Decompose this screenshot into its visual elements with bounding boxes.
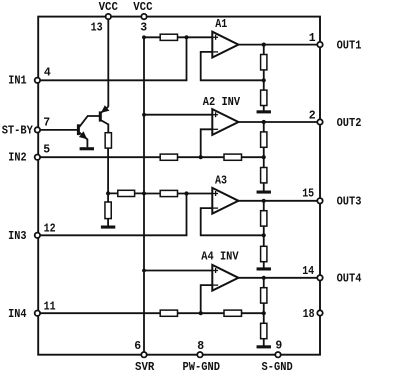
wire A4 divider upper stub bbox=[263, 278, 265, 288]
op-amp A4 bbox=[212, 265, 238, 291]
wire A1 divider mid stub bbox=[263, 70, 265, 80]
node A1 divider tap bbox=[262, 78, 266, 82]
wire IN2 input line bbox=[37, 156, 263, 158]
IC package boundary box bbox=[38, 17, 320, 355]
transistor Q1 collector bbox=[79, 116, 99, 127]
svg-text:IN3: IN3 bbox=[8, 230, 26, 243]
label S-GND bbox=[262, 361, 293, 374]
svg-text:ST-BY: ST-BY bbox=[2, 124, 33, 137]
ground standby bbox=[101, 226, 115, 229]
resistor A1 divider lower bbox=[261, 90, 267, 105]
pin 3 VCC bbox=[141, 14, 146, 19]
node A3 divider tap bbox=[262, 233, 266, 237]
wire bias feed A1 +input bbox=[144, 36, 214, 38]
wire A3 divider lower stub bbox=[263, 235, 265, 246]
op-amp A2 bbox=[212, 109, 238, 135]
svg-text:1: 1 bbox=[309, 32, 316, 45]
node SVR corner bbox=[142, 36, 146, 40]
label VCC pin13 bbox=[99, 1, 118, 14]
label OUT1 bbox=[337, 39, 362, 52]
svg-text:A1: A1 bbox=[215, 18, 227, 31]
svg-text:IN1: IN1 bbox=[8, 74, 26, 87]
svg-text:5: 5 bbox=[43, 144, 50, 157]
resistor A1 divider upper bbox=[261, 55, 267, 70]
label OUT2 bbox=[337, 117, 362, 130]
label op-amp A3 bbox=[215, 175, 227, 188]
wire IN4 input line bbox=[37, 312, 263, 314]
transistor Q2 emitter bbox=[101, 107, 108, 113]
pin 13 VCC bbox=[106, 14, 111, 19]
ground Q1 emitter bbox=[80, 147, 94, 150]
wire A2 divider upper stub bbox=[263, 122, 265, 132]
label PW-GND bbox=[183, 361, 221, 374]
wire A4 ground stub bbox=[263, 339, 265, 347]
pin 1 OUT1 bbox=[317, 42, 322, 47]
transistor Q1 base bar bbox=[77, 124, 80, 135]
label pin number 1 bbox=[309, 32, 316, 45]
svg-text:SVR: SVR bbox=[135, 361, 154, 374]
wire A4 -input riser bbox=[201, 285, 215, 313]
node SVR branch A4 bbox=[142, 269, 146, 273]
resistor input RA2a bbox=[160, 154, 177, 160]
label pin number 3 bbox=[140, 21, 147, 34]
svg-text:9: 9 bbox=[275, 339, 282, 352]
svg-text:IN4: IN4 bbox=[8, 308, 26, 321]
svg-text:OUT2: OUT2 bbox=[337, 117, 362, 130]
wire A1 divider upper stub bbox=[263, 45, 265, 55]
label OUT4 bbox=[337, 273, 362, 286]
wire IN1 input line bbox=[37, 79, 187, 81]
wire A4 divider lower stub bbox=[263, 313, 265, 323]
wire VCC/SVR pin 3 vertical bbox=[143, 37, 145, 354]
svg-text:A4 INV: A4 INV bbox=[201, 251, 238, 264]
node SVR branch A3 row bbox=[142, 192, 146, 196]
svg-text:14: 14 bbox=[302, 265, 314, 278]
label pin number 9 bbox=[275, 339, 282, 352]
svg-text:18: 18 bbox=[303, 308, 315, 321]
wire A3 feedback from -input bbox=[201, 208, 264, 235]
wire A1 feedback from -input bbox=[201, 52, 264, 80]
wire Q2 collector chain bbox=[107, 148, 109, 193]
label pin number 6 bbox=[134, 340, 141, 353]
label pin number 12 bbox=[44, 222, 56, 235]
pin 15 OUT3 bbox=[317, 198, 322, 203]
wire A3 divider upper stub bbox=[263, 201, 265, 211]
ground A2 divider bbox=[257, 191, 271, 194]
svg-text:4: 4 bbox=[44, 67, 51, 80]
svg-text:11: 11 bbox=[44, 301, 56, 314]
wire A3 divider mid stub bbox=[263, 226, 265, 235]
node standby divider junction bbox=[106, 191, 110, 195]
label ST-BY bbox=[2, 124, 33, 137]
pin 8 PW-GND bbox=[197, 352, 202, 357]
pin 4 IN1 bbox=[35, 78, 40, 83]
pin 2 OUT2 bbox=[317, 119, 322, 124]
pin 6 SVR bbox=[141, 352, 146, 357]
transistor Q1 emitter bbox=[79, 133, 87, 148]
pin 9 S-GND bbox=[275, 352, 280, 357]
transistor Q2 base bar bbox=[99, 111, 102, 121]
wire A2 output bbox=[238, 121, 320, 123]
ground A1 divider bbox=[257, 110, 271, 113]
svg-text:VCC: VCC bbox=[99, 1, 118, 14]
svg-text:13: 13 bbox=[91, 21, 103, 34]
node A4 output junction bbox=[262, 276, 266, 280]
resistor bias RA3a bbox=[160, 190, 177, 196]
label IN1 bbox=[8, 74, 26, 87]
svg-text:2: 2 bbox=[309, 110, 316, 123]
node A2 output junction bbox=[262, 120, 266, 124]
node A4 -input junction bbox=[199, 311, 203, 315]
op-amp A1 bbox=[212, 32, 238, 58]
svg-text:A2 INV: A2 INV bbox=[203, 96, 240, 109]
pin 11 IN4 bbox=[35, 311, 40, 316]
svg-text:S-GND: S-GND bbox=[262, 361, 293, 374]
label op-amp A2 INV bbox=[203, 96, 240, 109]
label op-amp A4 INV bbox=[201, 251, 238, 264]
wire IN3 input line bbox=[37, 234, 187, 236]
node A1 +input junction bbox=[184, 35, 188, 39]
svg-text:IN2: IN2 bbox=[8, 152, 26, 165]
ground A3 divider bbox=[257, 267, 271, 270]
node A3 +input junction bbox=[184, 191, 188, 195]
label IN4 bbox=[8, 308, 26, 321]
wire IN1 riser bbox=[186, 37, 188, 80]
resistor A4 divider lower bbox=[261, 323, 267, 338]
svg-text:VCC: VCC bbox=[133, 1, 152, 14]
wire A1 divider lower stub bbox=[263, 80, 265, 90]
pin 12 IN3 bbox=[35, 233, 40, 238]
wire A2 divider lower stub bbox=[263, 157, 265, 168]
wire standby ground stub bbox=[107, 219, 109, 226]
label pin number 4 bbox=[44, 67, 51, 80]
wire IN3 riser bbox=[186, 194, 188, 236]
label pin number 8 bbox=[197, 340, 204, 353]
svg-text:PW-GND: PW-GND bbox=[183, 361, 221, 374]
node SVR branch A1 bbox=[142, 35, 146, 39]
resistor A2 divider upper bbox=[261, 132, 267, 147]
label pin number 13 bbox=[91, 21, 103, 34]
label pin number 5 bbox=[43, 144, 50, 157]
label pin number 18 bbox=[303, 308, 315, 321]
wire bias feed A4 +input bbox=[144, 270, 214, 272]
op-amp A3 bbox=[212, 188, 238, 214]
svg-text:6: 6 bbox=[134, 340, 141, 353]
wire standby lower stub bbox=[107, 193, 109, 202]
wire VCC pin 13 vertical bbox=[107, 17, 109, 107]
label pin number 14 bbox=[302, 265, 314, 278]
label op-amp A1 bbox=[215, 18, 227, 31]
wire ST-BY input line bbox=[37, 129, 77, 131]
wire A2 divider mid stub bbox=[263, 147, 265, 157]
svg-text:OUT4: OUT4 bbox=[337, 273, 362, 286]
wire A3 output bbox=[238, 200, 320, 202]
svg-text:OUT1: OUT1 bbox=[337, 39, 362, 52]
resistor A3 divider upper bbox=[261, 211, 267, 226]
node A2 divider tap bbox=[262, 155, 266, 159]
svg-text:OUT3: OUT3 bbox=[337, 196, 362, 209]
label pin number 7 bbox=[43, 117, 50, 130]
label IN2 bbox=[8, 152, 26, 165]
pin 7 ST-BY bbox=[35, 127, 40, 132]
resistor feedback RA2b bbox=[224, 154, 242, 160]
pin 5 IN2 bbox=[35, 155, 40, 160]
wire A2 ground stub bbox=[263, 183, 265, 192]
transistor Q2 emitter arrow bbox=[101, 105, 109, 113]
wire bias feed A2 +input bbox=[144, 114, 214, 116]
svg-text:15: 15 bbox=[302, 188, 314, 201]
label OUT3 bbox=[337, 196, 362, 209]
label pin number 15 bbox=[302, 188, 314, 201]
node A3 output junction bbox=[262, 199, 266, 203]
svg-text:7: 7 bbox=[43, 117, 50, 130]
node A1 output junction bbox=[262, 43, 266, 47]
wire A4 output bbox=[238, 277, 320, 279]
transistor Q1 emitter arrow bbox=[79, 131, 87, 139]
resistor A4 divider upper bbox=[261, 288, 267, 303]
resistor standby to SVR bbox=[118, 190, 135, 196]
wire bias feed A3 +input bbox=[144, 193, 214, 195]
label SVR bbox=[135, 361, 154, 374]
node SVR branch A3 bbox=[142, 192, 146, 196]
node A4 divider tap bbox=[262, 311, 266, 315]
svg-text:A3: A3 bbox=[215, 175, 227, 188]
pin 18 bbox=[317, 310, 322, 315]
label pin number 2 bbox=[309, 110, 316, 123]
resistor A3 divider lower bbox=[261, 246, 267, 261]
transistor Q2 collector bbox=[101, 120, 108, 132]
wire standby to SVR bbox=[108, 192, 144, 194]
svg-text:12: 12 bbox=[44, 222, 56, 235]
resistor bias RA1a bbox=[160, 34, 177, 40]
wire A3 ground stub bbox=[263, 262, 265, 269]
resistor Q2 collector bbox=[105, 133, 111, 148]
svg-text:3: 3 bbox=[140, 21, 147, 34]
wire A1 ground stub bbox=[263, 106, 265, 112]
label pin number 11 bbox=[44, 301, 56, 314]
resistor standby lower bbox=[105, 202, 111, 219]
pin 14 OUT4 bbox=[317, 275, 322, 280]
node SVR branch A2 bbox=[142, 113, 146, 117]
ground A4 divider bbox=[257, 345, 271, 348]
node A2 -input junction bbox=[199, 155, 203, 159]
label IN3 bbox=[8, 230, 26, 243]
wire A4 divider mid stub bbox=[263, 303, 265, 313]
resistor feedback RA4b bbox=[224, 310, 242, 316]
label VCC pin3 bbox=[133, 1, 152, 14]
wire A2 -input riser bbox=[201, 129, 215, 157]
resistor input RA4a bbox=[160, 310, 177, 316]
wire A1 output bbox=[238, 44, 320, 46]
svg-text:8: 8 bbox=[197, 340, 204, 353]
resistor A2 divider lower bbox=[261, 168, 267, 183]
